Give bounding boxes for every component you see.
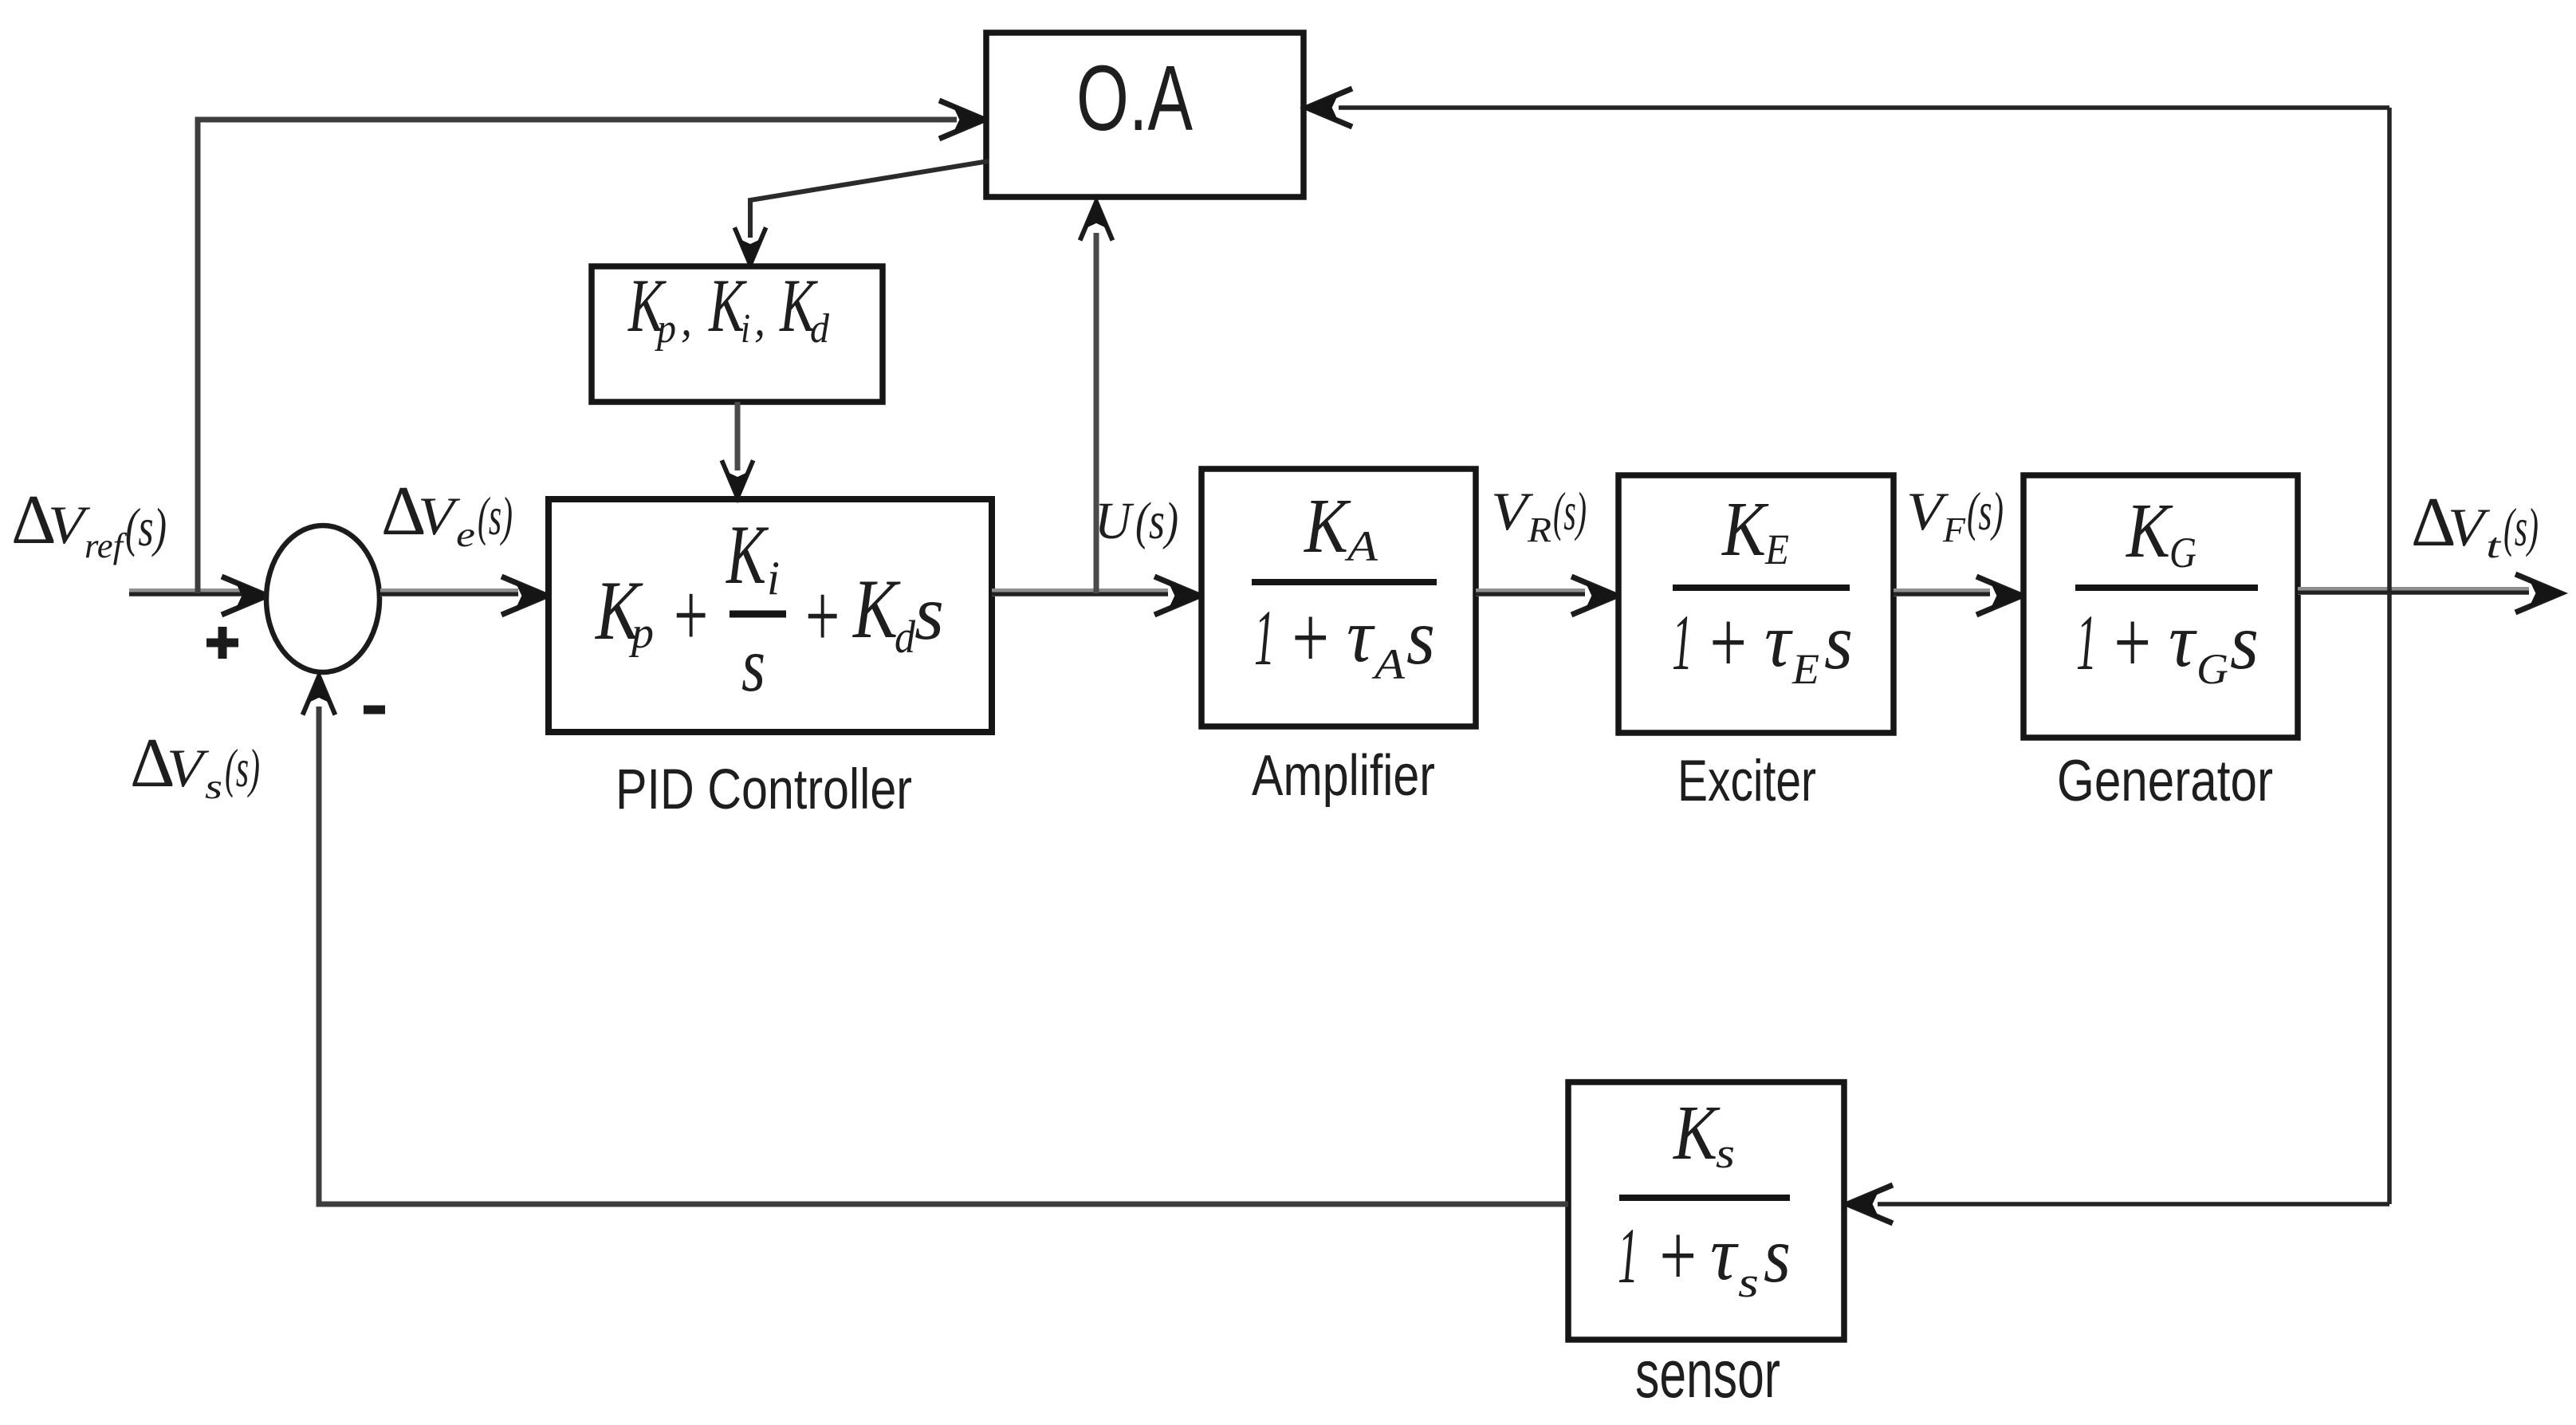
summing junction circle xyxy=(266,526,380,672)
svg-text:K: K xyxy=(726,508,769,601)
svg-text:d: d xyxy=(895,611,916,663)
fraction bar Amplifier xyxy=(1252,579,1437,585)
wire summing junction to PID xyxy=(380,589,518,596)
arrow into Amplifier left xyxy=(1154,577,1201,615)
svg-text:1: 1 xyxy=(1254,593,1275,682)
node output junction vertical wire xyxy=(2387,108,2392,1204)
svg-text:i: i xyxy=(741,306,750,352)
block PID Controller xyxy=(549,499,992,732)
block Amplifier xyxy=(1201,469,1476,726)
svg-text:(s): (s) xyxy=(1967,481,2004,541)
wire gain box to PID top xyxy=(735,402,741,470)
arrow into Exciter left xyxy=(1571,577,1618,615)
svg-text:(s): (s) xyxy=(225,738,260,798)
svg-text:s: s xyxy=(741,622,765,708)
svg-text:+: + xyxy=(1288,589,1332,687)
wire Generator to output xyxy=(2298,587,2529,595)
svg-text:+: + xyxy=(2110,593,2154,692)
svg-text:s: s xyxy=(1764,1210,1791,1299)
svg-text:G: G xyxy=(2169,529,2196,577)
arrow output ΔVt xyxy=(2515,574,2562,612)
arrow into sensor right xyxy=(1846,1185,1893,1223)
block Generator xyxy=(2023,475,2298,738)
svg-text:(s): (s) xyxy=(125,497,167,557)
svg-text:A: A xyxy=(1345,522,1379,570)
arrow into O.A left xyxy=(939,100,986,139)
label ΔVe(s) xyxy=(381,473,513,554)
svg-text:,: , xyxy=(681,293,692,345)
svg-text:O.A: O.A xyxy=(1076,46,1193,150)
svg-text:τ: τ xyxy=(1347,593,1375,678)
svg-text:(s): (s) xyxy=(1135,492,1178,550)
svg-text:+: + xyxy=(670,565,711,666)
svg-text:s: s xyxy=(2230,597,2259,686)
node U(s) junction wire up to O.A xyxy=(1094,233,1099,593)
svg-text:p: p xyxy=(654,306,676,352)
label ΔVt(s) xyxy=(2411,484,2539,565)
svg-text:PID Controller: PID Controller xyxy=(615,758,912,821)
svg-text:+: + xyxy=(1655,1207,1700,1305)
svg-text:e: e xyxy=(456,515,475,554)
fraction bar Generator xyxy=(2075,585,2258,591)
svg-text:,: , xyxy=(754,293,765,345)
svg-text:K: K xyxy=(1303,483,1351,569)
arrow into O.A bottom xyxy=(1080,200,1113,240)
svg-text:d: d xyxy=(810,306,830,352)
svg-text:s: s xyxy=(205,767,222,806)
label ΔVref(s) xyxy=(11,482,167,565)
plus sign xyxy=(206,627,238,659)
block O.A xyxy=(986,33,1304,197)
arrow into O.A right xyxy=(1305,89,1352,127)
svg-text:p: p xyxy=(628,608,654,658)
svg-text:F: F xyxy=(1942,510,1966,549)
arrow into summing junction bottom xyxy=(303,675,336,714)
svg-text:E: E xyxy=(1791,645,1819,693)
svg-text:Exciter: Exciter xyxy=(1677,749,1816,813)
svg-text:Amplifier: Amplifier xyxy=(1252,744,1435,808)
minus sign xyxy=(364,706,385,714)
wire bottom feedback to sensor xyxy=(1878,1202,2389,1207)
arrow into summing junction left xyxy=(222,577,269,615)
block Exciter xyxy=(1618,475,1894,733)
fraction bar Ki/s xyxy=(730,611,786,618)
wire branch up-left to O.A xyxy=(198,120,957,593)
svg-text:(s): (s) xyxy=(478,486,513,546)
svg-text:+: + xyxy=(1705,593,1750,692)
svg-text:(s): (s) xyxy=(1553,481,1587,541)
svg-text:s: s xyxy=(1716,1129,1735,1177)
svg-text:G: G xyxy=(2196,645,2228,693)
wire sensor to summing junction xyxy=(319,707,1568,1204)
wire input ΔVref horizontal xyxy=(129,589,243,596)
svg-text:s: s xyxy=(1406,592,1435,681)
svg-text:τ: τ xyxy=(2169,598,2197,683)
svg-text:K: K xyxy=(1721,486,1769,573)
svg-text:i: i xyxy=(767,552,780,604)
arrow into PID left xyxy=(501,577,549,615)
block sensor xyxy=(1568,1082,1844,1340)
svg-text:s: s xyxy=(1738,1258,1759,1306)
svg-text:Generator: Generator xyxy=(2057,749,2273,813)
svg-text:τ: τ xyxy=(1764,598,1793,683)
wire diagonal O.A to gain box xyxy=(750,161,989,238)
PID formula Kp + Ki/s + Kds xyxy=(594,508,944,708)
block gains Kp,Ki,Kd xyxy=(592,266,883,402)
arrow into PID top xyxy=(722,460,753,498)
svg-text:1: 1 xyxy=(1672,598,1693,687)
wire Amplifier to Exciter xyxy=(1476,589,1585,596)
fraction bar Exciter xyxy=(1673,585,1850,591)
label VF(s) xyxy=(1906,481,2004,549)
svg-text:K: K xyxy=(2125,488,2173,574)
svg-text:s: s xyxy=(1824,597,1853,686)
svg-text:K: K xyxy=(851,562,901,655)
wire Exciter to Generator xyxy=(1894,589,1990,596)
arrow into gain box top xyxy=(734,227,765,266)
svg-text:s: s xyxy=(914,570,944,656)
svg-text:U: U xyxy=(1095,492,1135,550)
svg-text:E: E xyxy=(1764,526,1789,573)
wire PID to Amplifier xyxy=(992,589,1168,596)
wire top feedback to O.A xyxy=(1339,105,2389,110)
svg-text:K: K xyxy=(1672,1090,1721,1176)
svg-text:R: R xyxy=(1527,510,1551,549)
fraction bar sensor xyxy=(1619,1195,1790,1201)
label ΔVs(s) xyxy=(130,725,260,806)
svg-text:τ: τ xyxy=(1710,1211,1739,1296)
svg-text:(s): (s) xyxy=(2503,497,2539,557)
svg-text:1: 1 xyxy=(2076,598,2097,687)
svg-text:1: 1 xyxy=(1618,1211,1638,1300)
svg-text:t: t xyxy=(2486,526,2503,565)
svg-text:sensor: sensor xyxy=(1635,1336,1780,1411)
arrow into Generator left xyxy=(1976,577,2023,615)
label U(s) xyxy=(1095,492,1178,550)
label VR(s) xyxy=(1491,481,1587,549)
svg-text:A: A xyxy=(1372,640,1406,688)
svg-text:ref: ref xyxy=(85,526,128,565)
svg-text:+: + xyxy=(801,565,843,667)
